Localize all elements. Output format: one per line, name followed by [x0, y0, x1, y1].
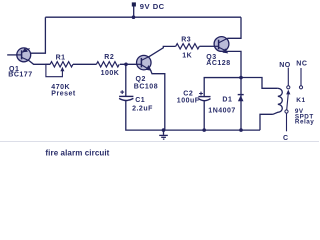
node: ground junction	[162, 128, 166, 132]
svg-text:BC177: BC177	[8, 72, 32, 79]
wire C2 top lead	[204, 78, 241, 97]
svg-text:100uF: 100uF	[177, 97, 200, 104]
resistor R2	[96, 62, 119, 67]
svg-text:100K: 100K	[101, 70, 120, 77]
wire left vertical from rail to Q1 emitter	[30, 17, 45, 53]
svg-text:C1: C1	[135, 97, 145, 104]
wire R2 to Q2 base	[120, 63, 137, 65]
resistor R3	[176, 44, 200, 49]
svg-text:Preset: Preset	[51, 90, 76, 97]
svg-text:C2: C2	[183, 90, 193, 97]
wire Q2 collector up to R3 row	[149, 46, 176, 56]
wire R3 to Q3 base	[199, 45, 214, 47]
label C1 plus	[120, 90, 124, 94]
relay armature with arrow	[287, 94, 289, 110]
node: rail junction at 9V tap	[132, 15, 136, 19]
wire Q1 collector to R1 row	[29, 61, 50, 65]
resistor R1	[50, 62, 73, 67]
wire C1 top lead	[125, 64, 127, 96]
node: D1 ground junction	[239, 128, 243, 132]
wire top rail	[45, 16, 241, 18]
svg-text:R2: R2	[104, 54, 114, 61]
wire Q3 collector down	[227, 51, 241, 77]
node: Q3 collector / D1 / relay junction	[239, 76, 243, 80]
node: R2/Q2/C1 junction	[124, 63, 128, 67]
svg-text:NO: NO	[279, 62, 291, 69]
svg-text:D1: D1	[222, 97, 232, 104]
relay NO contact stub	[287, 68, 289, 86]
transistor Q1 BC177	[17, 48, 31, 62]
wire C1 bottom lead and ground rail	[126, 101, 260, 131]
wire 9V DC stem	[133, 7, 135, 18]
wire C2 bottom lead	[203, 101, 205, 131]
svg-text:1K: 1K	[182, 52, 192, 59]
transistor Q3 AC128	[214, 37, 229, 54]
capacitor C1	[119, 96, 133, 100]
R1 preset wiper arrow	[46, 64, 63, 76]
wire Q3 emitter to rail	[227, 17, 241, 38]
transistor Q2 BC108	[137, 55, 152, 70]
node: C2 ground junction	[202, 128, 206, 132]
svg-text:Q2: Q2	[136, 76, 146, 83]
wire D1 vertical	[240, 78, 242, 130]
diode D1	[238, 95, 244, 101]
svg-text:2.2uF: 2.2uF	[132, 106, 153, 113]
wire Q1 base stub	[7, 54, 17, 56]
svg-text:1N4007: 1N4007	[208, 107, 236, 114]
ground	[159, 130, 168, 139]
label C2 plus	[199, 92, 203, 96]
relay common terminal	[285, 110, 288, 113]
svg-text:AC128: AC128	[206, 60, 230, 67]
svg-text:R3: R3	[181, 36, 191, 43]
svg-text:BC108: BC108	[134, 84, 158, 91]
svg-text:9V DC: 9V DC	[140, 2, 165, 11]
svg-text:fire alarm circuit: fire alarm circuit	[45, 148, 109, 157]
wire R1 to R2	[73, 63, 96, 65]
9V DC terminal square	[132, 2, 136, 6]
relay NC contact stub	[300, 68, 302, 86]
svg-text:Relay: Relay	[295, 119, 314, 126]
relay coil	[273, 88, 282, 114]
svg-text:NC: NC	[296, 61, 307, 68]
svg-text:R1: R1	[56, 54, 66, 61]
capacitor C2	[198, 97, 210, 101]
faint separator line	[0, 140, 319, 142]
svg-text:K1: K1	[296, 97, 305, 104]
wire Q2 emitter down	[151, 70, 165, 130]
wire relay coil top feed	[241, 78, 278, 89]
wire relay coil bottom return	[260, 114, 273, 130]
svg-text:C: C	[283, 135, 289, 142]
